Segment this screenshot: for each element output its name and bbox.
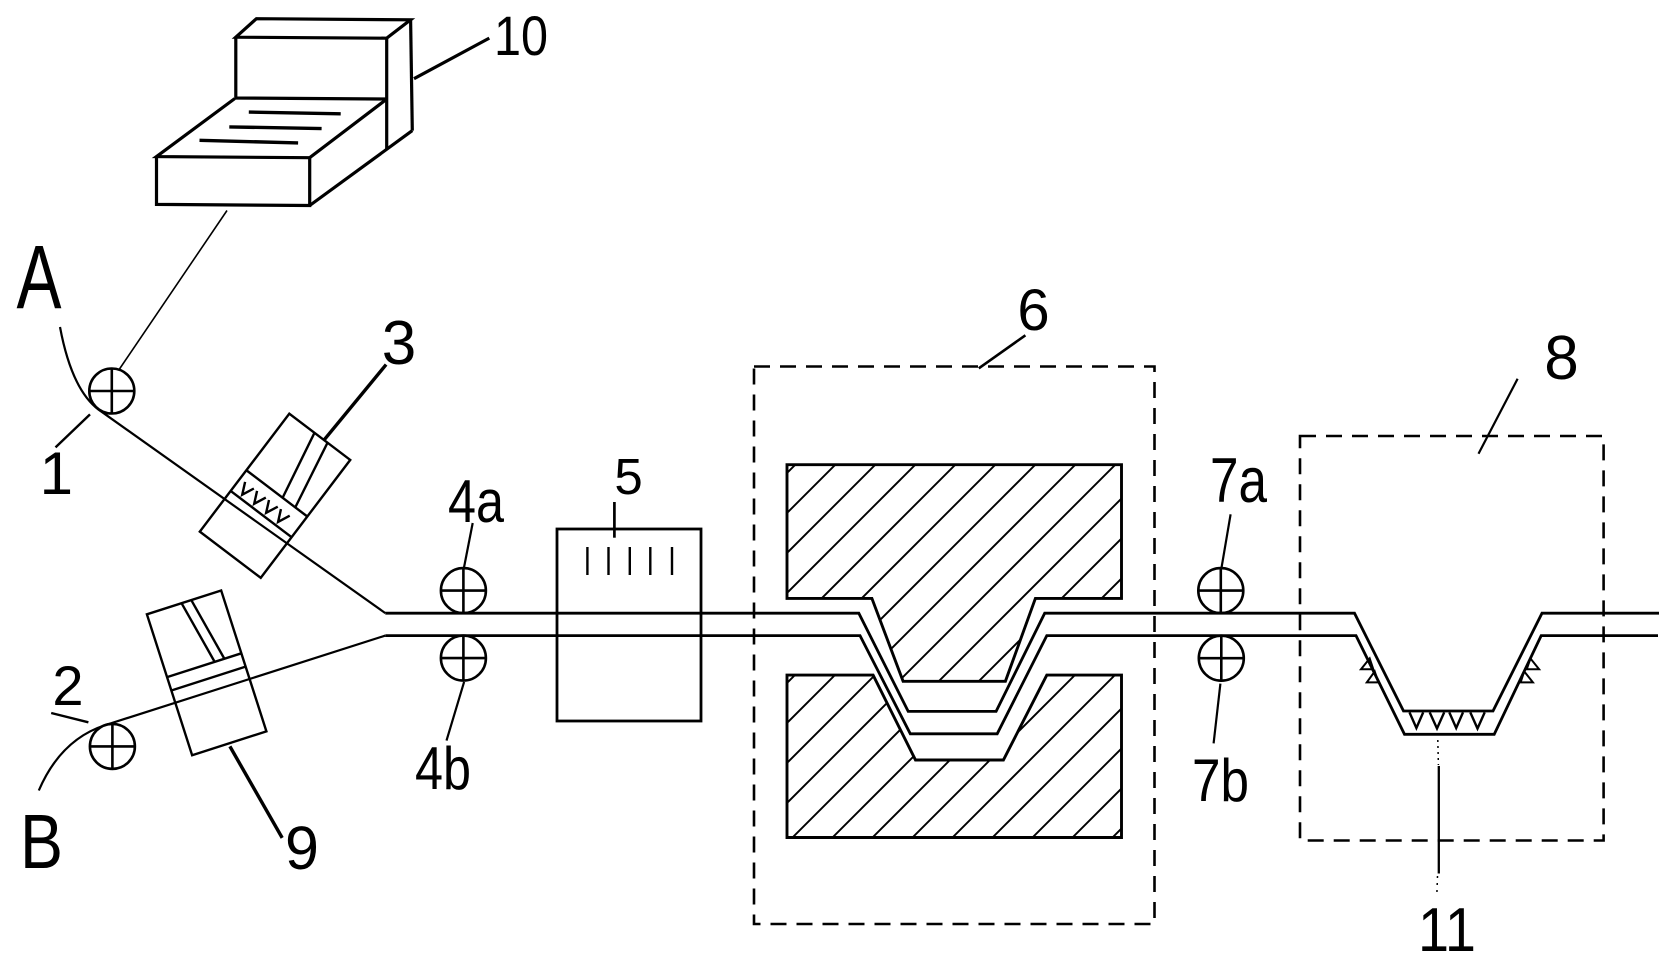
svg-text:4b: 4b: [415, 735, 471, 802]
svg-text:1: 1: [40, 440, 73, 507]
upper die hatching: [575, 460, 1320, 685]
leader 4a: [464, 523, 473, 568]
roller 7a: [1198, 568, 1243, 613]
leader 5: [613, 502, 616, 538]
leader 2: [51, 713, 88, 722]
forming station box 6 (dashed): [754, 367, 1155, 925]
laminate bottom line: [385, 636, 1658, 735]
svg-text:7b: 7b: [1192, 747, 1249, 814]
extruder machine 10 (isometric block): [157, 19, 413, 206]
web B: [106, 636, 386, 725]
roller 7b: [1199, 636, 1244, 681]
leader 6: [979, 335, 1026, 368]
roller 4a: [441, 568, 486, 613]
leader 7a: [1222, 514, 1231, 568]
svg-text:3: 3: [382, 309, 416, 378]
leader 11: [1437, 740, 1440, 765]
leader 10: [414, 38, 489, 79]
roller 2: [90, 724, 135, 769]
svg-text:5: 5: [614, 448, 642, 505]
applicator 9: [147, 590, 267, 755]
serrations 11 in channel bottom: [1410, 712, 1485, 728]
slot lines on machine 10 platform: [200, 112, 341, 143]
bond triangles on right channel wall: [1521, 658, 1540, 682]
svg-text:B: B: [20, 799, 63, 885]
leader 3: [324, 365, 386, 440]
leader 9: [230, 746, 282, 838]
lower die hatching: [630, 670, 1280, 840]
roller 4b: [441, 636, 486, 681]
leader 1: [56, 414, 91, 447]
feed line from machine 10 to roller 1: [120, 211, 228, 370]
applicator 3: [200, 414, 350, 578]
svg-text:10: 10: [494, 4, 548, 67]
svg-text:7a: 7a: [1210, 446, 1268, 516]
web B entry curve: [39, 725, 106, 791]
web A entry curve: [60, 327, 99, 410]
svg-text:6: 6: [1017, 278, 1049, 343]
bond triangles on left channel wall: [1361, 658, 1378, 682]
leader 4b: [447, 682, 465, 741]
cutting station box 8 (dashed): [1300, 436, 1604, 841]
svg-text:A: A: [17, 228, 62, 328]
svg-text:2: 2: [52, 654, 83, 717]
web A: [99, 410, 386, 613]
laminate top line: [385, 613, 1659, 711]
svg-text:4a: 4a: [448, 468, 505, 535]
svg-text:8: 8: [1544, 324, 1578, 393]
svg-text:9: 9: [285, 814, 319, 882]
leader 7b: [1214, 684, 1221, 744]
roller 1: [89, 369, 134, 414]
heater box 5: [557, 529, 701, 721]
leader 8: [1479, 379, 1518, 454]
svg-text:11: 11: [1418, 896, 1476, 965]
heater ticks: [587, 547, 672, 575]
